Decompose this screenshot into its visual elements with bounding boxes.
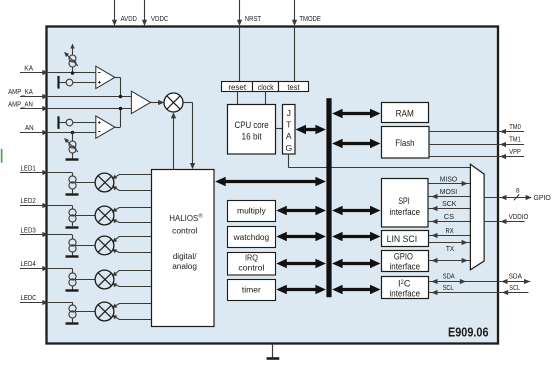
svg-text:VPP: VPP: [509, 147, 521, 156]
svg-text:TM0: TM0: [509, 122, 521, 131]
LIN SCI block: [382, 231, 429, 247]
clock box: [253, 82, 279, 92]
wire CS: [429, 221, 471, 223]
svg-text:E909.06: E909.06: [448, 325, 489, 340]
bus arrow right row y=236.9: [341, 235, 371, 238]
wire MISO: [429, 183, 471, 185]
wire JTAG/test to bus and pad mux: [288, 154, 290, 168]
electrode/sensor symbol bottom: [57, 116, 59, 129]
ground LED4 driver: [72, 286, 74, 290]
wires HALIOS to mixer LED2: [114, 208, 152, 212]
svg-text:CS: CS: [444, 212, 454, 221]
pin LED4: [20, 268, 72, 270]
pin AMP_KA: [20, 96, 131, 98]
svg-text:GPIO: GPIO: [394, 251, 413, 261]
svg-text:LED3: LED3: [21, 225, 36, 234]
svg-text:CPU core: CPU core: [235, 120, 269, 130]
svg-text:AMP_KA: AMP_KA: [8, 87, 33, 96]
ground (chip substrate): [272, 344, 274, 358]
current source (AN bias): [71, 131, 75, 135]
wires HALIOS to mixer LEDC: [114, 304, 152, 308]
svg-text:SDA: SDA: [443, 271, 455, 280]
svg-text:NRST: NRST: [245, 14, 262, 23]
svg-text:T: T: [286, 120, 292, 130]
bus arrow HALIOS-bus: [224, 180, 317, 183]
mixer/modulator LED1: [76, 182, 96, 184]
pin VDDIO: [484, 221, 524, 223]
chip body E909.06 outline: [47, 27, 499, 344]
wires HALIOS to mixer LED3: [114, 237, 152, 242]
pin GPIO (8-bit port): [484, 197, 528, 199]
svg-text:HALIOS: HALIOS: [169, 213, 198, 223]
wire A2 output to AMP_AN node: [115, 127, 121, 129]
svg-text:J: J: [287, 108, 291, 118]
svg-text:control: control: [172, 225, 197, 235]
svg-text:SDA: SDA: [509, 271, 522, 280]
svg-text:reset: reset: [228, 82, 246, 92]
svg-text:control: control: [238, 263, 264, 273]
reset box: [222, 82, 253, 92]
current source LED3 driver: [72, 235, 74, 239]
pin AN: [20, 132, 96, 134]
wire/pin SCL: [429, 292, 529, 294]
pin LED1: [20, 172, 72, 174]
svg-text:8: 8: [516, 187, 520, 194]
svg-text:®: ®: [198, 213, 202, 220]
svg-text:SCK: SCK: [442, 199, 456, 208]
wire GPIO interface to pad mux: [429, 260, 471, 262]
bus arrow left row y=289.9: [285, 288, 317, 291]
GPIO interface block: [382, 251, 429, 272]
wire MOSI: [429, 196, 471, 198]
svg-text:interface: interface: [390, 207, 421, 218]
svg-text:test: test: [287, 82, 300, 92]
svg-text:I2C: I2C: [398, 279, 411, 289]
svg-text:TMODE: TMODE: [299, 14, 320, 23]
mixer/modulator LED3: [76, 245, 96, 247]
mixer/modulator LEDC: [76, 311, 96, 313]
JTAG block: [283, 105, 296, 155]
timer block: [228, 280, 276, 301]
svg-text:Flash: Flash: [395, 138, 414, 149]
bus arrow right row y=289.9: [341, 288, 371, 291]
pin NRST: [239, 0, 241, 21]
bus arrow right row y=263.3: [341, 262, 371, 265]
bus arrow right row y=210.6: [341, 209, 371, 212]
mixer/modulator LED2: [76, 215, 96, 217]
op-amp A1 (KA input amplifier): [96, 66, 115, 88]
svg-text:analog: analog: [172, 261, 197, 271]
svg-text:timer: timer: [242, 284, 261, 294]
bus arrow left row y=236.9: [285, 235, 317, 238]
svg-text:AN: AN: [25, 123, 34, 132]
pin AVDD: [114, 0, 116, 21]
wire HALIOS to mixer LO: [173, 117, 175, 170]
svg-text:IRQ: IRQ: [245, 252, 258, 262]
ground LEDC driver: [72, 318, 74, 322]
svg-text:interface: interface: [390, 261, 421, 271]
svg-text:AVDD: AVDD: [121, 14, 138, 23]
wire reset to CPU: [237, 92, 239, 105]
electrode/sensor symbol top: [57, 76, 59, 89]
wire clock to CPU: [265, 92, 267, 105]
svg-text:LEDC: LEDC: [21, 293, 37, 302]
bus arrow left row y=210.6: [285, 209, 317, 212]
svg-text:SCL: SCL: [443, 283, 454, 292]
svg-text:digital/: digital/: [173, 251, 197, 261]
pin TMODE: [294, 0, 296, 21]
wire A3 output to mixer: [151, 102, 160, 104]
wire/pin SDA: [429, 281, 531, 283]
pad multiplexer: [470, 164, 484, 269]
svg-text:MISO: MISO: [440, 174, 458, 183]
pin AMP_AN: [20, 108, 131, 110]
svg-text:KA: KA: [24, 64, 33, 73]
pin TM0: [429, 131, 524, 133]
RAM block: [382, 103, 429, 123]
svg-text:RX: RX: [446, 226, 454, 235]
pin TM1: [429, 144, 524, 146]
ground (AN bias): [66, 158, 79, 160]
current source (KA bias): [72, 47, 74, 55]
svg-text:SCL: SCL: [509, 283, 520, 292]
op-amp A2 (AN input amplifier): [96, 116, 115, 138]
pin KA: [20, 72, 96, 74]
wires HALIOS to mixer LED4: [114, 271, 152, 276]
bus arrow bus-Flash: [341, 142, 371, 145]
svg-text:interface: interface: [390, 288, 421, 298]
current source LED4 driver: [72, 268, 74, 273]
wire RX: [429, 235, 471, 237]
wires HALIOS to mixer LED1: [114, 175, 152, 179]
Flash block: [382, 127, 430, 159]
scan artifact mark: [1, 149, 3, 163]
SPI interface block: [382, 179, 429, 228]
multiply block: [228, 201, 276, 222]
current source LED1 driver: [72, 173, 74, 177]
pin LEDC: [20, 302, 72, 304]
ground LED2 driver: [72, 222, 74, 226]
mixer M0 (demodulator): [164, 93, 183, 112]
wire SCK: [429, 208, 471, 210]
system bus: [326, 98, 331, 297]
HALIOS control block: [152, 170, 215, 327]
svg-text:watchdog: watchdog: [233, 232, 270, 242]
current source LED2 driver: [72, 205, 74, 209]
CPU core block: [228, 105, 276, 155]
svg-text:LED2: LED2: [21, 196, 36, 205]
svg-text:LED1: LED1: [21, 163, 36, 172]
watchdog block: [228, 227, 276, 248]
pin VDDC: [144, 0, 146, 21]
svg-text:LIN SCI: LIN SCI: [387, 234, 418, 244]
svg-text:A: A: [286, 131, 292, 141]
svg-text:G: G: [285, 143, 292, 153]
test box: [279, 82, 309, 92]
svg-text:clock: clock: [258, 82, 274, 92]
ground LED3 driver: [72, 252, 74, 256]
ground LED1 driver: [72, 189, 74, 193]
svg-text:SPI: SPI: [398, 196, 409, 207]
pin LED3: [20, 234, 72, 236]
op-amp A3 (summing amplifier): [131, 91, 150, 113]
bus arrow JTAG-bus: [305, 128, 317, 131]
pin LED2: [20, 205, 72, 207]
wire A1 output to AMP_KA node: [115, 77, 121, 79]
current source LEDC driver: [72, 302, 74, 306]
wire CPU to JTAG: [276, 128, 283, 130]
svg-text:LED4: LED4: [21, 259, 36, 268]
bus arrow left row y=263.3: [285, 262, 317, 265]
pin VPP: [429, 156, 524, 158]
svg-text:16 bit: 16 bit: [242, 132, 263, 142]
svg-text:VDDIO: VDDIO: [509, 212, 529, 221]
IRQ control block: [228, 253, 276, 276]
svg-text:RAM: RAM: [396, 108, 414, 119]
wire mixer out to HALIOS: [183, 102, 192, 104]
mixer/modulator LED4: [76, 279, 96, 281]
wire TX: [429, 242, 471, 244]
svg-text:MOSI: MOSI: [440, 187, 457, 196]
svg-text:GPIO: GPIO: [534, 193, 551, 202]
svg-text:VDDC: VDDC: [151, 14, 169, 23]
svg-text:TX: TX: [446, 244, 454, 253]
svg-text:multiply: multiply: [237, 206, 266, 216]
bus arrow bus-RAM: [341, 112, 371, 115]
svg-text:TM1: TM1: [509, 135, 521, 144]
svg-text:AMP_AN: AMP_AN: [8, 99, 33, 108]
I2C interface block: [382, 277, 429, 299]
